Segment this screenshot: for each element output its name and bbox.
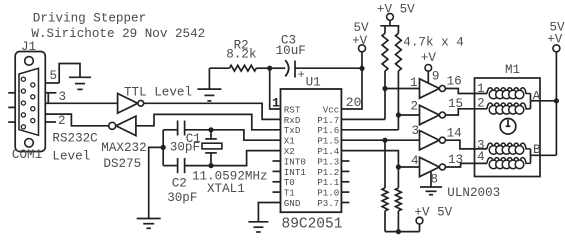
svg-text:3: 3 [59, 90, 67, 104]
svg-text:5V: 5V [354, 21, 370, 35]
svg-text:8.2k: 8.2k [226, 48, 256, 62]
svg-text:Driving Stepper: Driving Stepper [33, 11, 146, 25]
svg-text:2: 2 [58, 114, 66, 128]
svg-text:INT1: INT1 [284, 167, 307, 178]
svg-text:INT0: INT0 [284, 156, 306, 167]
svg-text:8: 8 [431, 173, 439, 187]
svg-text:14: 14 [447, 126, 462, 140]
svg-text:5: 5 [50, 69, 58, 83]
svg-text:DS275: DS275 [103, 157, 141, 171]
svg-text:30pF: 30pF [167, 191, 197, 205]
svg-text:4: 4 [477, 150, 485, 164]
svg-text:P1.6: P1.6 [317, 125, 339, 136]
svg-text:2: 2 [411, 100, 419, 114]
svg-text:RS232C: RS232C [52, 132, 98, 146]
svg-text:P1.4: P1.4 [317, 146, 340, 157]
svg-text:GND: GND [284, 198, 301, 209]
svg-text:XTAL1: XTAL1 [207, 182, 245, 196]
svg-text:T1: T1 [284, 188, 296, 199]
svg-text:9: 9 [432, 70, 440, 84]
svg-text:3: 3 [412, 124, 420, 138]
svg-text:+: + [298, 69, 305, 82]
svg-text:Level: Level [52, 150, 90, 164]
svg-text:+V 5V: +V 5V [377, 3, 415, 17]
svg-text:M1: M1 [505, 63, 520, 77]
svg-text:89C2051: 89C2051 [282, 217, 343, 233]
svg-text:RxD: RxD [284, 115, 301, 126]
svg-text:P1.3: P1.3 [317, 156, 339, 167]
svg-text:+V 5V: +V 5V [414, 206, 452, 220]
svg-text:1: 1 [272, 95, 280, 110]
svg-text:TTL Level: TTL Level [124, 86, 192, 100]
svg-text:X2: X2 [284, 146, 295, 157]
svg-text:4: 4 [411, 154, 419, 168]
svg-text:1: 1 [477, 82, 485, 96]
svg-text:P1.7: P1.7 [317, 115, 339, 126]
svg-text:TxD: TxD [284, 125, 301, 136]
svg-text:+V: +V [421, 51, 437, 65]
svg-text:4.7k x 4: 4.7k x 4 [403, 36, 463, 50]
svg-text:U1: U1 [306, 76, 321, 90]
svg-text:1: 1 [410, 76, 418, 90]
svg-text:W.Sirichote 29 Nov 2542: W.Sirichote 29 Nov 2542 [31, 27, 205, 41]
svg-text:RST: RST [284, 104, 301, 115]
svg-text:+V: +V [352, 34, 368, 48]
svg-text:Vcc: Vcc [323, 104, 340, 115]
svg-text:30pF: 30pF [170, 141, 200, 155]
svg-text:COM1: COM1 [12, 148, 42, 162]
svg-text:10uF: 10uF [276, 44, 306, 58]
svg-text:16: 16 [447, 75, 462, 89]
svg-text:P1.0: P1.0 [317, 188, 339, 199]
svg-text:P1.5: P1.5 [317, 136, 339, 147]
svg-text:20: 20 [346, 95, 362, 110]
svg-text:C2: C2 [172, 177, 187, 191]
svg-text:2: 2 [477, 97, 485, 111]
svg-text:ULN2003: ULN2003 [447, 186, 500, 200]
svg-text:P3.7: P3.7 [317, 198, 339, 209]
svg-text:X1: X1 [284, 136, 296, 147]
svg-text:MAX232: MAX232 [101, 141, 146, 155]
svg-text:P1.2: P1.2 [317, 167, 339, 178]
